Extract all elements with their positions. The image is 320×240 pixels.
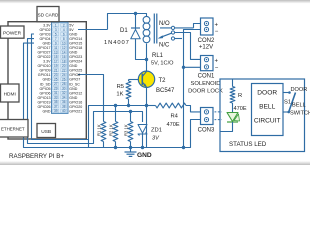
svg-text:GPIO7: GPIO7	[69, 78, 80, 82]
svg-text:T2: T2	[159, 78, 167, 84]
svg-text:28: 28	[62, 82, 66, 86]
svg-text:GND: GND	[69, 33, 77, 37]
svg-text:7: 7	[55, 37, 57, 41]
svg-text:GND: GND	[43, 78, 51, 82]
svg-text:22: 22	[62, 68, 66, 72]
svg-text:SD CARD: SD CARD	[38, 12, 59, 17]
svg-text:BC547: BC547	[156, 88, 175, 94]
svg-text:BELL: BELL	[259, 104, 275, 111]
svg-text:GPIO19: GPIO19	[38, 100, 51, 104]
svg-text:CON1: CON1	[198, 74, 215, 80]
svg-text:GPIO24: GPIO24	[69, 60, 82, 64]
svg-text:GND: GND	[43, 109, 51, 113]
svg-text:1N4007: 1N4007	[104, 40, 130, 46]
svg-text:13: 13	[54, 50, 58, 54]
svg-text:GPIO17: GPIO17	[38, 46, 51, 50]
svg-text:14: 14	[62, 50, 66, 54]
svg-text:18: 18	[62, 59, 66, 63]
svg-text:DOOR LOCK: DOOR LOCK	[188, 89, 223, 95]
svg-text:37: 37	[54, 105, 58, 109]
svg-text:3: 3	[55, 28, 57, 32]
svg-text:GPIO20: GPIO20	[69, 105, 82, 109]
svg-text:GPIO25: GPIO25	[69, 69, 82, 73]
svg-text:+: +	[215, 22, 219, 28]
svg-text:GPIO13: GPIO13	[38, 96, 51, 100]
svg-text:470E: 470E	[234, 106, 247, 112]
svg-text:N/C: N/C	[159, 43, 170, 49]
svg-text:R3 1K: R3 1K	[123, 124, 128, 136]
svg-text:10: 10	[62, 41, 66, 45]
svg-text:GND: GND	[69, 64, 77, 68]
svg-text:5: 5	[55, 32, 57, 36]
svg-text:GPIO14: GPIO14	[69, 37, 82, 41]
svg-text:D1: D1	[120, 28, 128, 34]
svg-text:3.3V: 3.3V	[43, 60, 51, 64]
svg-text:1K: 1K	[116, 92, 123, 98]
svg-text:2: 2	[63, 23, 65, 27]
svg-text:GND: GND	[69, 96, 77, 100]
svg-text:GPIO27: GPIO27	[38, 51, 51, 55]
svg-text:GPIO26: GPIO26	[38, 105, 51, 109]
svg-text:POWER: POWER	[3, 30, 22, 36]
svg-text:SWITCH: SWITCH	[290, 111, 310, 117]
svg-text:6: 6	[63, 32, 65, 36]
svg-text:30: 30	[62, 87, 66, 91]
svg-text:35: 35	[54, 100, 58, 104]
svg-text:27: 27	[54, 82, 58, 86]
svg-text:GPIO5: GPIO5	[40, 87, 51, 91]
svg-text:8: 8	[63, 37, 65, 41]
svg-text:S1: S1	[284, 100, 291, 106]
svg-text:24: 24	[62, 73, 66, 77]
svg-text:R4: R4	[171, 114, 179, 120]
svg-text:DOOR: DOOR	[257, 90, 277, 97]
svg-text:GPIO3: GPIO3	[40, 33, 51, 37]
svg-text:15: 15	[54, 55, 58, 59]
svg-text:11: 11	[54, 46, 58, 50]
svg-text:29: 29	[54, 87, 58, 91]
svg-text:5V, 1C/O: 5V, 1C/O	[151, 61, 174, 67]
svg-text:DOOR: DOOR	[291, 87, 308, 93]
svg-text:34: 34	[62, 96, 66, 100]
svg-text:GPIO8: GPIO8	[69, 73, 80, 77]
svg-text:GPIO18: GPIO18	[69, 46, 82, 50]
svg-text:GPIO11: GPIO11	[38, 73, 51, 77]
svg-text:GPIO21: GPIO21	[69, 109, 82, 113]
svg-text:CON3: CON3	[198, 128, 215, 134]
svg-text:ID_SC: ID_SC	[69, 82, 80, 86]
svg-text:GPIO15: GPIO15	[69, 42, 82, 46]
svg-text:N/O: N/O	[159, 21, 170, 27]
svg-text:26: 26	[62, 77, 66, 81]
svg-text:GND: GND	[137, 152, 152, 159]
svg-text:GPIO16: GPIO16	[69, 100, 82, 104]
svg-text:GND: GND	[43, 42, 51, 46]
svg-text:GPIO2: GPIO2	[40, 28, 51, 32]
svg-text:4: 4	[63, 28, 65, 32]
svg-text:36: 36	[62, 100, 66, 104]
svg-text:40: 40	[62, 109, 66, 113]
svg-text:ZD1: ZD1	[151, 128, 162, 134]
svg-text:CIRCUIT: CIRCUIT	[254, 118, 281, 125]
svg-text:38: 38	[62, 105, 66, 109]
svg-text:12: 12	[62, 46, 66, 50]
svg-text:GND: GND	[69, 51, 77, 55]
svg-text:BELL: BELL	[292, 103, 306, 109]
svg-text:STATUS LED: STATUS LED	[229, 141, 267, 148]
svg-text:5V: 5V	[69, 28, 74, 32]
svg-text:17: 17	[54, 59, 58, 63]
svg-text:SOLENOID: SOLENOID	[191, 81, 221, 87]
svg-text:CON2: CON2	[198, 38, 215, 44]
svg-text:31: 31	[54, 91, 58, 95]
svg-text:−: −	[215, 29, 219, 35]
svg-text:39: 39	[54, 109, 58, 113]
svg-text:3.3V: 3.3V	[43, 24, 51, 28]
svg-text:GPIO9: GPIO9	[40, 69, 51, 73]
svg-text:GPIO22: GPIO22	[38, 55, 51, 59]
svg-text:GND: GND	[69, 87, 77, 91]
svg-text:+12V: +12V	[199, 44, 213, 50]
svg-text:470E: 470E	[167, 122, 180, 128]
svg-text:25: 25	[54, 77, 58, 81]
svg-text:R2 1K: R2 1K	[108, 124, 113, 136]
svg-text:USB: USB	[41, 129, 51, 135]
svg-text:GPIO6: GPIO6	[40, 91, 51, 95]
svg-text:R1 1K: R1 1K	[96, 124, 101, 136]
svg-text:20: 20	[62, 64, 66, 68]
svg-text:GPIO12: GPIO12	[69, 91, 82, 95]
svg-text:23: 23	[54, 73, 58, 77]
svg-text:32: 32	[62, 91, 66, 95]
svg-text:33: 33	[54, 96, 58, 100]
svg-text:16: 16	[62, 55, 66, 59]
svg-text:19: 19	[54, 64, 58, 68]
svg-text:+: +	[215, 58, 219, 64]
svg-text:R: R	[238, 93, 242, 99]
svg-text:5V: 5V	[69, 24, 74, 28]
svg-text:21: 21	[54, 68, 58, 72]
svg-text:ID_SD: ID_SD	[40, 82, 51, 86]
svg-text:9: 9	[55, 41, 57, 45]
svg-text:GPIO4: GPIO4	[40, 37, 51, 41]
svg-text:ETHERNET: ETHERNET	[1, 127, 25, 132]
svg-text:RASPBERRY PI B+: RASPBERRY PI B+	[9, 153, 64, 160]
svg-text:GPIO23: GPIO23	[69, 55, 82, 59]
svg-text:R5: R5	[117, 84, 124, 90]
svg-text:−: −	[215, 66, 219, 72]
svg-text:1: 1	[55, 23, 57, 27]
svg-text:GPIO10: GPIO10	[38, 64, 51, 68]
svg-text:HDMI: HDMI	[4, 91, 16, 97]
svg-text:RL1: RL1	[152, 53, 164, 59]
